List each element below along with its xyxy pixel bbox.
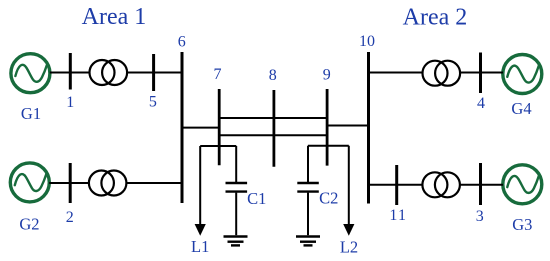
- ground under C1: [224, 237, 248, 246]
- transformer T4: [422, 172, 460, 197]
- svg-text:5: 5: [149, 94, 157, 111]
- svg-text:4: 4: [477, 95, 485, 112]
- transformer T1: [90, 60, 128, 85]
- load L2: [343, 146, 354, 236]
- wire T1 to bus 6: [127, 72, 182, 74]
- bus 4: [479, 53, 482, 94]
- wire T3 to bus 6: [127, 182, 183, 184]
- wire bus 10 to T4: [369, 184, 423, 186]
- capacitor C2: [297, 146, 319, 235]
- generator G2: [10, 163, 49, 202]
- tie line 7-9 upper: [219, 117, 327, 119]
- wire T2 to G4: [460, 72, 503, 74]
- generator G1: [11, 54, 50, 93]
- svg-text:11: 11: [389, 207, 407, 224]
- bus 9: [326, 89, 329, 166]
- tie line 7-9 lower: [219, 134, 327, 136]
- svg-text:2: 2: [66, 209, 74, 226]
- svg-text:6: 6: [178, 33, 186, 50]
- bus 7: [218, 89, 221, 165]
- svg-text:G3: G3: [512, 215, 532, 234]
- bus 3: [479, 163, 482, 205]
- svg-text:G4: G4: [511, 99, 531, 118]
- wire bus 10 to T2: [369, 72, 423, 74]
- svg-text:C2: C2: [319, 188, 338, 207]
- svg-text:3: 3: [476, 208, 484, 225]
- wire G2 to T3: [49, 182, 89, 184]
- svg-text:Area 1: Area 1: [82, 4, 147, 30]
- transformer T2: [423, 61, 461, 86]
- svg-text:G1: G1: [21, 104, 41, 123]
- wire bus 9 to bus 10: [327, 125, 368, 127]
- svg-text:L2: L2: [340, 238, 358, 257]
- transformer T3: [89, 171, 127, 196]
- svg-text:G2: G2: [19, 215, 39, 234]
- wire load bar at bus 7: [200, 145, 236, 147]
- bus 11: [395, 165, 398, 205]
- ground under C2: [296, 237, 320, 246]
- generator G4: [503, 55, 542, 94]
- wire load bar at bus 9: [308, 145, 349, 147]
- svg-text:10: 10: [359, 33, 375, 50]
- bus 2: [69, 163, 72, 203]
- bus 8: [272, 90, 275, 167]
- wire G1 to T1: [50, 72, 90, 74]
- generator G3: [503, 165, 542, 204]
- capacitor C1: [226, 146, 248, 235]
- bus 5: [152, 54, 155, 91]
- wire bus 6 to bus 7: [182, 127, 219, 129]
- bus 10: [367, 52, 370, 204]
- svg-text:8: 8: [269, 67, 277, 84]
- load L1: [195, 146, 206, 236]
- svg-text:Area 2: Area 2: [403, 5, 468, 31]
- wire T4 to G3: [460, 184, 503, 186]
- bus 1: [69, 53, 72, 90]
- svg-text:1: 1: [66, 94, 74, 111]
- svg-text:C1: C1: [247, 189, 266, 208]
- svg-text:7: 7: [214, 66, 222, 83]
- svg-text:L1: L1: [191, 237, 209, 256]
- svg-text:9: 9: [323, 67, 331, 84]
- bus 6: [181, 52, 184, 203]
